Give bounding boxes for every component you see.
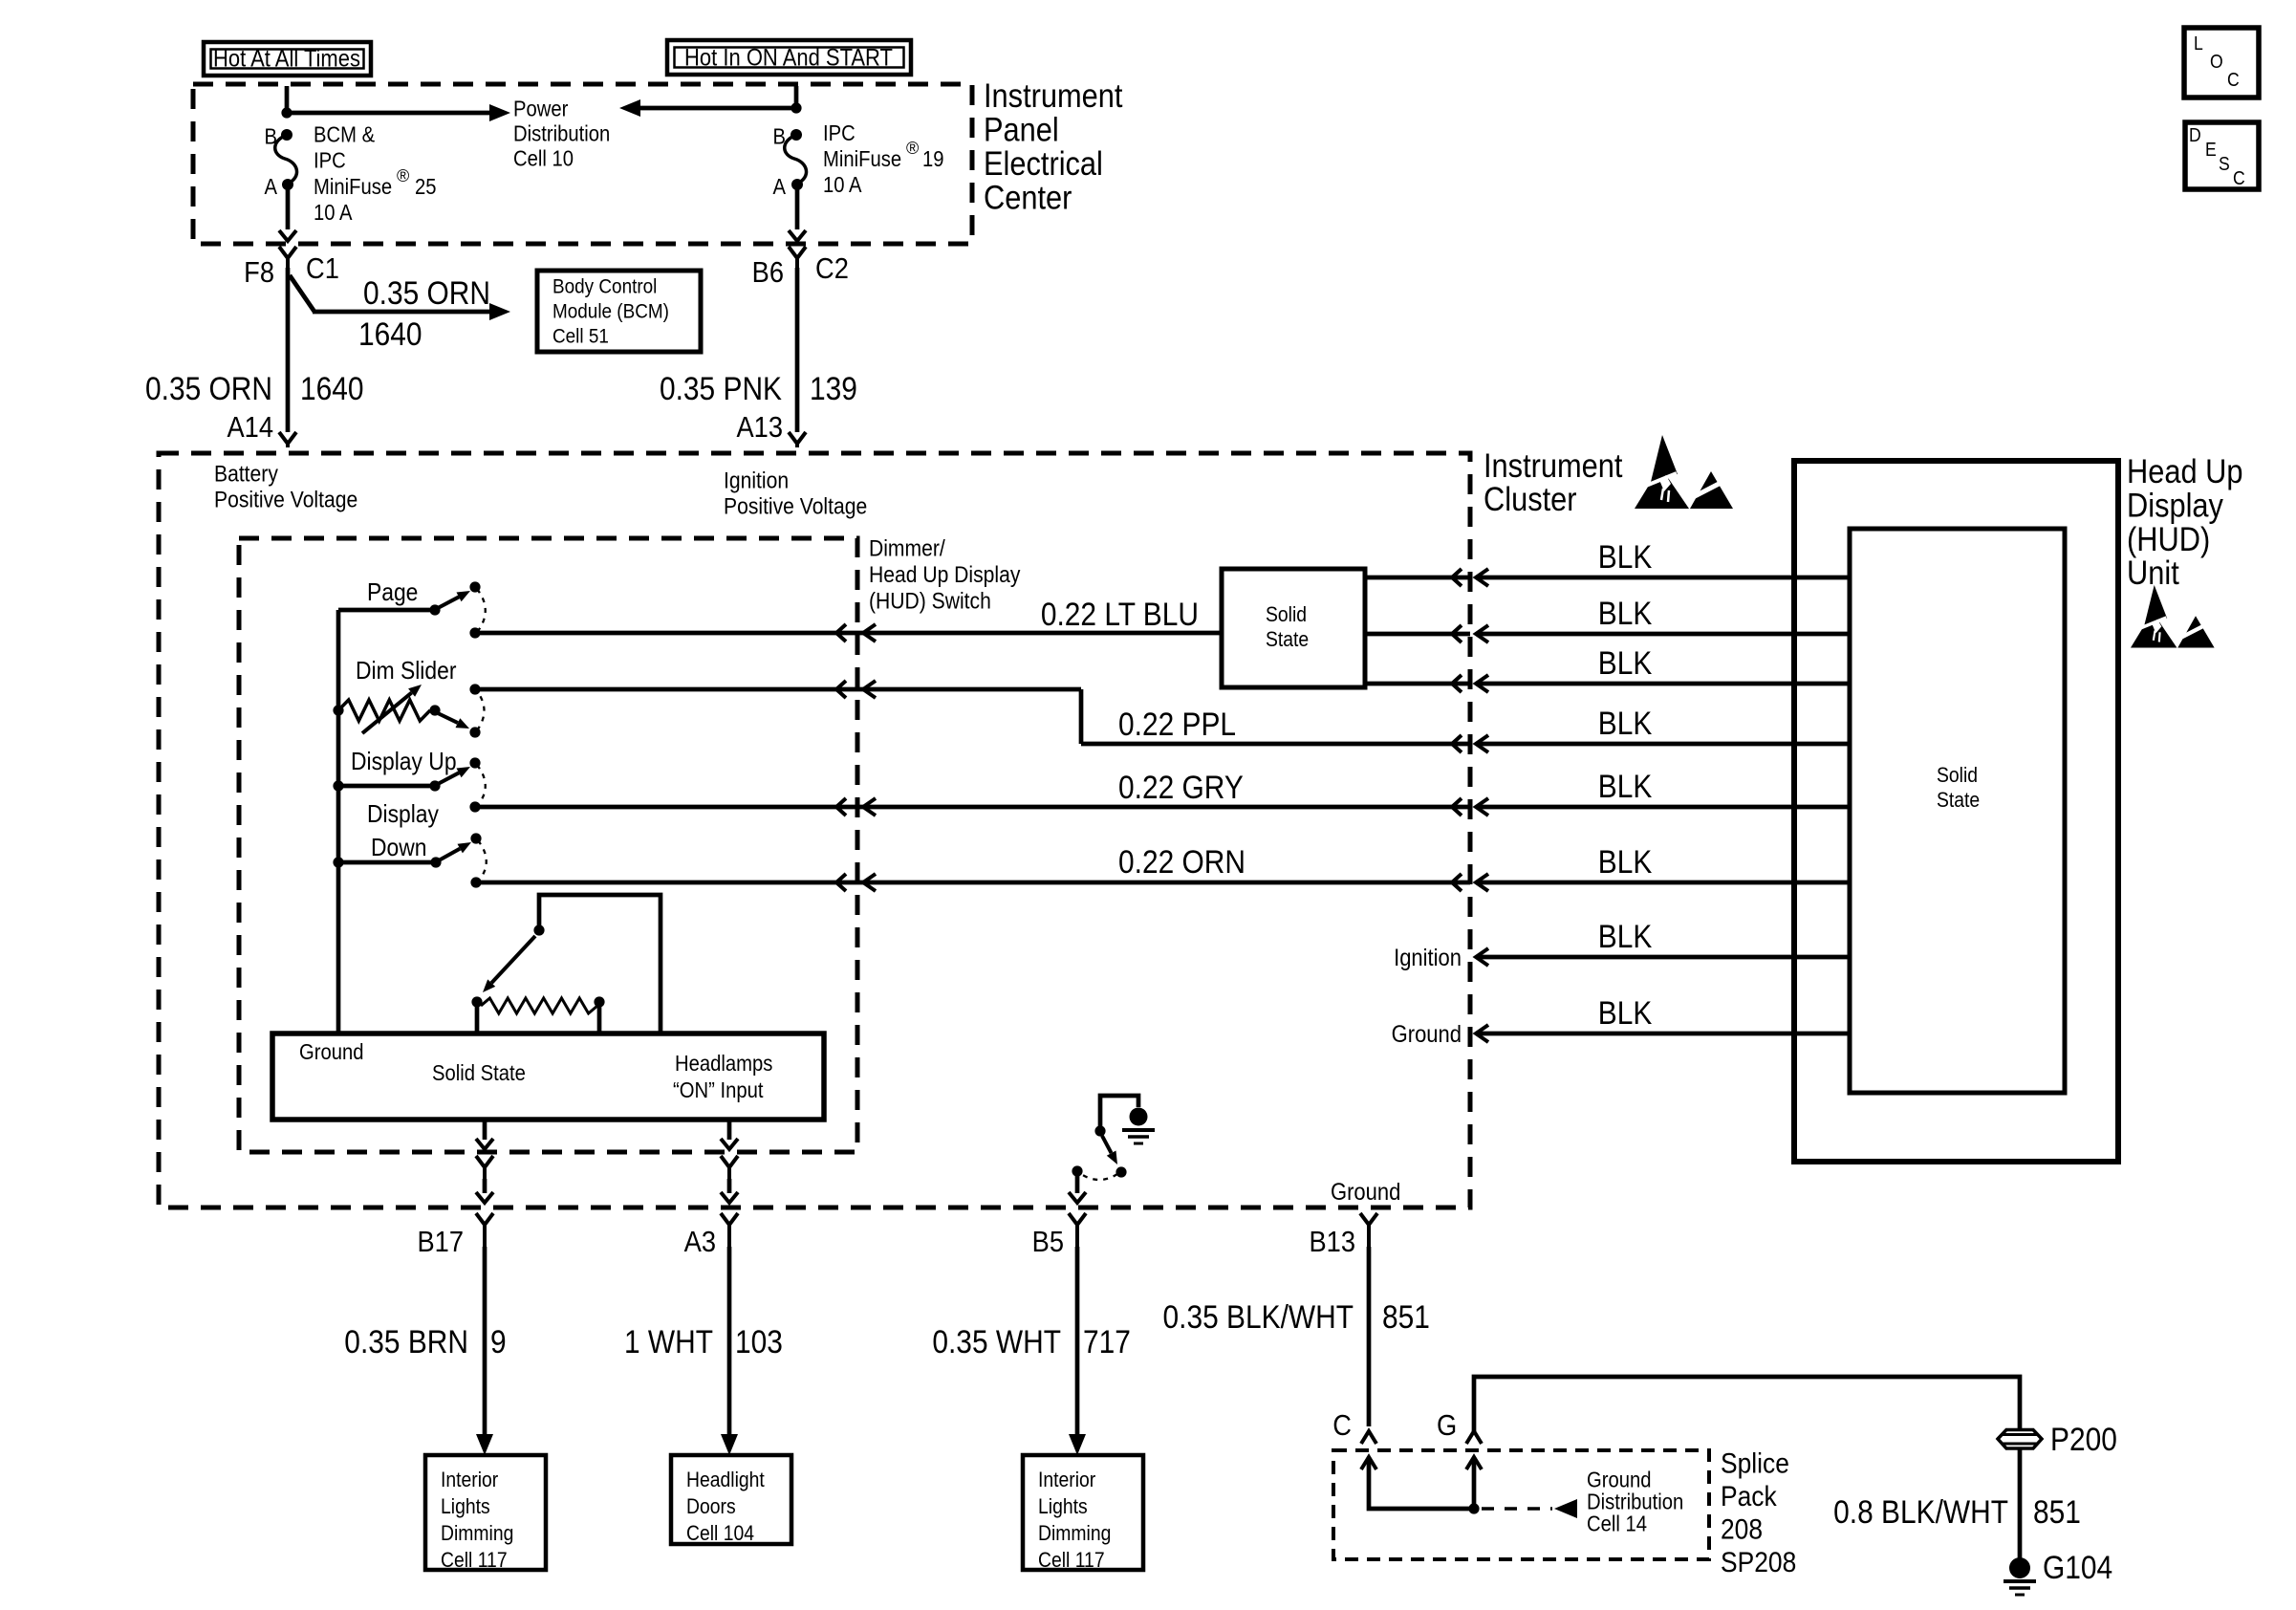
svg-text:BLK: BLK xyxy=(1598,843,1653,880)
svg-text:Positive Voltage: Positive Voltage xyxy=(724,493,867,519)
wire: BLK HUD data 5 (cluster to HUD unit) xyxy=(1452,798,1462,816)
junction: bus to Display Down xyxy=(333,857,343,867)
wire: BLK HUD data 3 (cluster to HUD unit) xyxy=(1452,675,1462,692)
svg-text:0.35 BRN: 0.35 BRN xyxy=(344,1323,468,1360)
svg-text:Dimmer/: Dimmer/ xyxy=(869,535,945,561)
svg-text:0.35 WHT: 0.35 WHT xyxy=(932,1323,1061,1360)
svg-text:Lights: Lights xyxy=(441,1495,490,1518)
switch travel arc: dim slider xyxy=(477,691,485,730)
junction: battery feed node xyxy=(281,107,292,118)
wire: G leg inside splice pack xyxy=(1472,1457,1477,1509)
wire: solid state row 3 to cluster edge xyxy=(1365,682,1470,686)
wire: switch output down xyxy=(1075,1171,1080,1193)
inline connector at switch boundary (Display Up row) xyxy=(836,798,846,816)
wire: ground out inside cluster xyxy=(483,1179,487,1193)
svg-text:Head Up Display: Head Up Display xyxy=(869,562,1021,588)
svg-text:0.22 PPL: 0.22 PPL xyxy=(1118,706,1236,742)
svg-text:C1: C1 xyxy=(306,252,339,285)
contact dot: Page output xyxy=(469,627,480,638)
svg-text:Cell 51: Cell 51 xyxy=(552,325,609,347)
svg-text:Ground: Ground xyxy=(1331,1179,1400,1206)
svg-text:A: A xyxy=(772,174,786,200)
wire: Display Down output to cluster edge xyxy=(476,881,1470,885)
component box: Solid State (HUD switch module) xyxy=(272,1033,824,1120)
wire: dim slider output (lower run to cluster edge) xyxy=(1081,742,1470,747)
contact dot: Display Up output xyxy=(469,801,480,812)
destination box: Interior Lights Dimming Cell 117 (left) xyxy=(425,1455,546,1570)
svg-text:(HUD) Switch: (HUD) Switch xyxy=(869,588,991,614)
wire: Page output to solid state xyxy=(475,631,1222,636)
connector: HUD switch pin (headlamps) xyxy=(721,1156,729,1167)
connector: instrument cluster pin A13 xyxy=(789,432,797,444)
svg-text:Instrument: Instrument xyxy=(1484,446,1622,484)
arrow: into splice pack G xyxy=(1466,1457,1482,1469)
wire: fuse 19 output down xyxy=(795,185,800,229)
svg-text:103: 103 xyxy=(735,1323,783,1360)
LOC reference box xyxy=(2184,28,2259,98)
svg-text:Display Up: Display Up xyxy=(351,749,457,776)
svg-text:19: 19 xyxy=(922,146,944,172)
wire: 0.35 BRN 9 to interior lights dimming xyxy=(483,1247,487,1439)
ground symbol (HUD switch) xyxy=(1130,1108,1148,1126)
svg-text:“ON” Input: “ON” Input xyxy=(673,1077,763,1103)
arrow: headlamps out at cluster boundary xyxy=(721,1192,738,1203)
arrowhead into headlight doors box xyxy=(721,1434,738,1455)
svg-text:BLK: BLK xyxy=(1598,768,1653,804)
svg-text:Display: Display xyxy=(367,801,440,829)
svg-text:Power: Power xyxy=(513,96,568,121)
wire: B6 to A13 (0.35 PNK 139) xyxy=(795,268,800,432)
connector C2 pin B6 xyxy=(789,247,797,258)
svg-text:1 WHT: 1 WHT xyxy=(624,1323,713,1360)
switch arm: interior lights dimming switch xyxy=(1102,1136,1112,1153)
svg-text:Cell 117: Cell 117 xyxy=(1038,1549,1105,1572)
resistor: dim slider element xyxy=(338,700,430,721)
svg-text:Body Control: Body Control xyxy=(552,275,657,297)
contact dot: wiper pivot xyxy=(533,925,544,935)
component box: Solid State (HUD unit) xyxy=(1850,529,2065,1093)
switch arm: Display Up xyxy=(438,772,459,784)
arrowhead into interior lights box (right) xyxy=(1069,1434,1086,1455)
wire: F8 to A14 (0.35 ORN 1640) xyxy=(286,268,291,432)
svg-text:0.8 BLK/WHT: 0.8 BLK/WHT xyxy=(1833,1493,2008,1530)
svg-text:Cell 117: Cell 117 xyxy=(441,1549,508,1572)
ESD symbol (instrument cluster) xyxy=(1651,435,1678,482)
connector: cluster pin B5 xyxy=(1069,1213,1077,1225)
svg-text:BLK: BLK xyxy=(1598,994,1653,1031)
connector: HUD switch pin (ground out) xyxy=(476,1156,485,1167)
svg-text:Cell 104: Cell 104 xyxy=(686,1522,754,1545)
svg-text:0.35 PNK: 0.35 PNK xyxy=(660,370,782,406)
wire: 0.8 BLK/WHT 851 to G104 xyxy=(2018,1449,2023,1558)
svg-text:L: L xyxy=(2194,33,2203,54)
connector: splice pack pin C (wire end fork) xyxy=(1361,1431,1376,1444)
svg-text:(HUD): (HUD) xyxy=(2127,520,2210,557)
svg-text:C2: C2 xyxy=(815,252,849,285)
svg-text:0.35 BLK/WHT: 0.35 BLK/WHT xyxy=(1163,1298,1354,1335)
svg-text:O: O xyxy=(2210,51,2223,72)
svg-text:B6: B6 xyxy=(752,256,784,289)
svg-text:Lights: Lights xyxy=(1038,1495,1088,1518)
svg-text:State: State xyxy=(1266,628,1309,651)
svg-text:BLK: BLK xyxy=(1598,595,1653,631)
svg-text:D: D xyxy=(2189,124,2201,145)
contact dot: dimming resistor left xyxy=(471,996,482,1007)
inline connector at switch boundary (dim slider row) xyxy=(836,681,846,698)
svg-text:Electrical: Electrical xyxy=(984,144,1103,182)
svg-text:Center: Center xyxy=(984,179,1072,216)
wire: bus to Display Down switch xyxy=(338,860,433,865)
wire: solid state row 1 to cluster edge xyxy=(1365,576,1470,580)
wiper arrow through resistor xyxy=(362,693,412,733)
wire: BLK HUD data 2 (cluster to HUD unit) xyxy=(1452,625,1462,642)
connector: cluster pin B17 xyxy=(476,1213,485,1225)
wire: dim slider output (upper run) xyxy=(475,687,1081,692)
svg-text:Interior: Interior xyxy=(441,1469,498,1491)
connector: cluster pin A3 xyxy=(721,1213,729,1225)
label box: Hot In ON And START xyxy=(667,40,911,75)
svg-text:Ignition: Ignition xyxy=(724,468,789,493)
svg-text:State: State xyxy=(1937,789,1980,812)
svg-text:BCM &: BCM & xyxy=(314,121,376,147)
svg-text:0.22 LT BLU: 0.22 LT BLU xyxy=(1041,596,1199,632)
wire: ground switch bracket xyxy=(1100,1096,1138,1128)
wire: bus to Page switch xyxy=(338,608,432,613)
terminal dot A (fuse 25) xyxy=(282,179,293,190)
arrow: at cluster boundary (B5) xyxy=(1069,1192,1086,1203)
svg-text:P200: P200 xyxy=(2050,1421,2117,1457)
contact dot: Display Down upper xyxy=(470,833,481,843)
wire: 0.35 BLK/WHT 851 down xyxy=(1367,1247,1372,1426)
wire: fuse 25 output down xyxy=(286,185,291,229)
switch arm: Display Down xyxy=(439,849,460,860)
svg-text:Module (BCM): Module (BCM) xyxy=(552,300,669,322)
contact dot: Page upper xyxy=(469,581,480,592)
contact dot: ground switch fixed xyxy=(1094,1125,1105,1136)
svg-text:9: 9 xyxy=(490,1323,507,1360)
svg-text:S: S xyxy=(2219,153,2230,174)
svg-text:Down: Down xyxy=(371,835,426,862)
arrow: into splice pack C xyxy=(1361,1457,1376,1469)
svg-text:Instrument: Instrument xyxy=(984,76,1122,114)
svg-text:C: C xyxy=(1332,1409,1352,1442)
arrow: fuse 25 output at IPEC boundary xyxy=(279,230,296,241)
svg-text:E: E xyxy=(2205,139,2217,160)
wire: 0.35 WHT 717 to interior lights dimming xyxy=(1075,1247,1080,1439)
junction: bus to dim slider xyxy=(333,705,343,715)
wire: dim slider output (jog down) xyxy=(1079,689,1084,744)
contact dot: Display Up common xyxy=(429,780,440,791)
wire: 1 WHT 103 to headlight doors xyxy=(727,1247,732,1439)
wire: solid state row 2 to cluster edge xyxy=(1365,632,1470,637)
svg-text:C: C xyxy=(2227,69,2240,90)
svg-text:G: G xyxy=(1437,1409,1457,1442)
svg-text:Positive Voltage: Positive Voltage xyxy=(214,487,357,512)
wire: BLK ignition feed (cluster to HUD unit) xyxy=(1476,948,1488,966)
arrowhead to Power Distribution xyxy=(489,104,510,121)
contact dot: Display Down output xyxy=(470,877,481,887)
svg-text:0.22 GRY: 0.22 GRY xyxy=(1118,769,1244,805)
switch travel arc: ground switch xyxy=(1081,1174,1117,1180)
component box: Body Control Module (BCM) Cell 51 xyxy=(537,271,701,352)
wire: BLK HUD data 4 (cluster to HUD unit) xyxy=(1452,735,1462,752)
svg-text:Unit: Unit xyxy=(2127,554,2179,591)
arrowhead into BCM box xyxy=(489,303,510,320)
svg-text:Panel: Panel xyxy=(984,111,1059,148)
svg-text:A13: A13 xyxy=(736,411,783,444)
ESD symbol (HUD unit) xyxy=(2144,585,2167,625)
ground G104 symbol xyxy=(2009,1557,2030,1578)
wire: BLK ground lead (cluster to HUD unit) xyxy=(1476,1025,1488,1042)
junction: ignition feed node xyxy=(791,102,801,113)
splice pack dashed box xyxy=(1333,1450,1709,1559)
arrow: headlamps output at switch boundary xyxy=(721,1139,738,1149)
Dimmer / HUD switch dashed box xyxy=(239,538,857,1152)
svg-text:Ground: Ground xyxy=(299,1039,363,1065)
svg-text:Headlamps: Headlamps xyxy=(675,1051,773,1077)
svg-text:B17: B17 xyxy=(417,1226,464,1258)
svg-text:10 A: 10 A xyxy=(314,200,353,226)
svg-text:Hot At All Times: Hot At All Times xyxy=(213,45,360,72)
svg-text:MiniFuse: MiniFuse xyxy=(314,174,392,200)
contact dot: dim slider moving end xyxy=(469,727,480,737)
svg-text:Doors: Doors xyxy=(686,1495,736,1518)
contact dot: ground switch moving end xyxy=(1116,1166,1126,1177)
wire: feed to Power Distribution (left arrow) xyxy=(639,106,796,111)
connector C1 pin F8 xyxy=(279,247,288,258)
connector: instrument cluster pin A14 xyxy=(279,432,288,444)
wire: BLK HUD data 6 (cluster to HUD unit) xyxy=(1452,874,1462,891)
terminal dot A (fuse 19) xyxy=(791,179,803,190)
inline connector P200 xyxy=(1998,1430,2042,1449)
svg-text:1640: 1640 xyxy=(300,370,364,406)
switch arm: Page xyxy=(438,597,459,608)
svg-text:Cell 14: Cell 14 xyxy=(1587,1511,1647,1536)
wire: branch to BCM (horizontal) xyxy=(313,310,489,315)
wire: BLK HUD data 1 (cluster to HUD unit) xyxy=(1452,569,1462,586)
svg-text:®: ® xyxy=(397,166,409,185)
svg-text:851: 851 xyxy=(1382,1298,1430,1335)
wire: battery feed into fuse block xyxy=(285,86,290,115)
svg-text:BLK: BLK xyxy=(1598,538,1653,575)
svg-text:Dimming: Dimming xyxy=(441,1522,513,1545)
contact dot: dimming resistor right xyxy=(594,996,604,1007)
wire: module ground output xyxy=(483,1120,487,1140)
svg-text:IPC: IPC xyxy=(314,147,346,173)
contact dot: Display Down common xyxy=(430,857,441,867)
svg-text:Pack: Pack xyxy=(1721,1479,1777,1512)
contact dot: Display Up upper xyxy=(469,757,480,768)
wire: headlamps out inside cluster xyxy=(727,1179,732,1193)
svg-text:Head Up: Head Up xyxy=(2127,452,2243,490)
wire: switch supply bus xyxy=(336,610,341,1035)
wire: ignition feed into fuse block xyxy=(794,86,799,110)
switch travel arc: Display Up xyxy=(477,765,486,805)
fuse F25 element (S-curve) xyxy=(275,135,297,184)
svg-text:Cluster: Cluster xyxy=(1484,480,1577,517)
destination box: Interior Lights Dimming Cell 117 (right) xyxy=(1023,1455,1143,1570)
svg-text:Battery: Battery xyxy=(214,461,279,487)
svg-text:Solid: Solid xyxy=(1266,603,1307,626)
svg-text:B5: B5 xyxy=(1032,1226,1064,1258)
inline connector at switch boundary (Page row) xyxy=(836,624,846,642)
svg-text:1640: 1640 xyxy=(358,315,422,352)
destination box: Headlight Doors Cell 104 xyxy=(671,1455,791,1544)
svg-text:0.35 ORN: 0.35 ORN xyxy=(145,370,272,406)
dashed wire to ground distribution xyxy=(1482,1507,1552,1511)
wire: resistor left leg into module xyxy=(475,1002,480,1035)
svg-text:Dim Slider: Dim Slider xyxy=(356,658,456,685)
switch arm: dim slider xyxy=(438,713,458,723)
contact dot: dim slider output xyxy=(469,684,480,694)
svg-text:Ignition: Ignition xyxy=(1394,945,1462,971)
Instrument Panel Electrical Center dashed box xyxy=(193,84,972,244)
svg-text:25: 25 xyxy=(415,174,437,200)
svg-text:Cell 10: Cell 10 xyxy=(513,145,574,171)
svg-text:Headlight: Headlight xyxy=(686,1469,765,1491)
svg-text:0.22 ORN: 0.22 ORN xyxy=(1118,843,1245,880)
switch travel arc: Display Down xyxy=(478,840,487,881)
svg-text:208: 208 xyxy=(1721,1512,1763,1545)
wire: G to P200 (up and across) xyxy=(1474,1377,2020,1431)
DESC reference box xyxy=(2185,122,2259,189)
wire: C leg inside splice pack xyxy=(1369,1457,1470,1509)
svg-text:Display: Display xyxy=(2127,487,2223,524)
svg-text:Distribution: Distribution xyxy=(513,120,610,146)
svg-text:0.35 ORN: 0.35 ORN xyxy=(363,274,490,311)
label box: Hot At All Times xyxy=(204,42,371,76)
connector: cluster pin B13 xyxy=(1360,1213,1369,1225)
junction: bus to Display Up xyxy=(333,780,343,791)
switch travel arc: Page xyxy=(477,589,486,631)
svg-text:A: A xyxy=(264,174,277,200)
arrowhead from ground distribution xyxy=(1554,1499,1577,1518)
svg-text:Solid: Solid xyxy=(1937,764,1978,787)
svg-text:Dimming: Dimming xyxy=(1038,1522,1111,1545)
junction: splice node SP208 xyxy=(1468,1503,1479,1513)
wire: branch to BCM (diagonal) xyxy=(290,275,314,312)
wiper arm with arrow xyxy=(491,936,535,983)
svg-text:B13: B13 xyxy=(1309,1226,1355,1258)
contact dot: Page common xyxy=(429,604,440,615)
svg-text:139: 139 xyxy=(810,370,857,406)
svg-text:717: 717 xyxy=(1083,1323,1131,1360)
svg-text:BLK: BLK xyxy=(1598,644,1653,681)
svg-text:10 A: 10 A xyxy=(823,172,862,198)
svg-text:BLK: BLK xyxy=(1598,705,1653,741)
resistor: dimming element xyxy=(481,998,597,1013)
svg-text:A3: A3 xyxy=(684,1226,716,1258)
terminal dot B (fuse 19) xyxy=(791,129,802,141)
svg-text:C: C xyxy=(2233,167,2245,188)
connector: splice pack pin G (wire end fork) xyxy=(1466,1431,1482,1444)
fuse F19 element (S-curve) xyxy=(785,135,807,184)
contact dot: dim slider right xyxy=(429,705,440,715)
component box: Solid State (cluster interface) xyxy=(1222,569,1365,687)
wire: Display Up output to cluster edge xyxy=(475,805,1470,810)
svg-text:SP208: SP208 xyxy=(1721,1545,1796,1577)
arrowhead to Power Distribution (left) xyxy=(619,99,640,117)
inline connector at switch boundary (Display Down row) xyxy=(836,874,846,891)
terminal dot B (fuse 25) xyxy=(281,129,292,141)
arrow: ground out at cluster boundary xyxy=(476,1192,493,1203)
svg-text:Page: Page xyxy=(367,579,418,607)
svg-text:Splice: Splice xyxy=(1721,1447,1789,1479)
svg-text:G104: G104 xyxy=(2043,1549,2112,1585)
svg-text:Ground: Ground xyxy=(1392,1021,1462,1048)
wire: feed to Power Distribution (right arrow) xyxy=(287,111,489,116)
svg-text:IPC: IPC xyxy=(823,120,856,146)
svg-text:MiniFuse: MiniFuse xyxy=(823,146,901,172)
wire: resistor right leg into module xyxy=(597,1002,602,1035)
svg-text:®: ® xyxy=(906,139,919,158)
svg-text:Interior: Interior xyxy=(1038,1469,1095,1491)
wire: headlamp wiper bridge xyxy=(539,895,661,1035)
svg-text:BLK: BLK xyxy=(1598,918,1653,954)
wire: bus to Display Up switch xyxy=(338,784,432,789)
svg-text:Solid State: Solid State xyxy=(432,1060,526,1086)
component box: Head Up Display unit (outer) xyxy=(1794,461,2118,1162)
svg-text:F8: F8 xyxy=(244,256,274,289)
svg-text:851: 851 xyxy=(2033,1493,2081,1530)
arrow: ground output at switch boundary xyxy=(476,1139,493,1149)
svg-text:Hot In ON And START: Hot In ON And START xyxy=(684,44,893,71)
arrow: fuse 19 output at IPEC boundary xyxy=(789,230,806,241)
svg-text:A14: A14 xyxy=(227,411,273,444)
wire: headlamps ON output xyxy=(727,1120,732,1140)
Instrument Cluster dashed box xyxy=(159,453,1470,1207)
contact dot: ground switch output xyxy=(1072,1165,1082,1176)
arrowhead into interior lights box (left) xyxy=(476,1434,493,1455)
